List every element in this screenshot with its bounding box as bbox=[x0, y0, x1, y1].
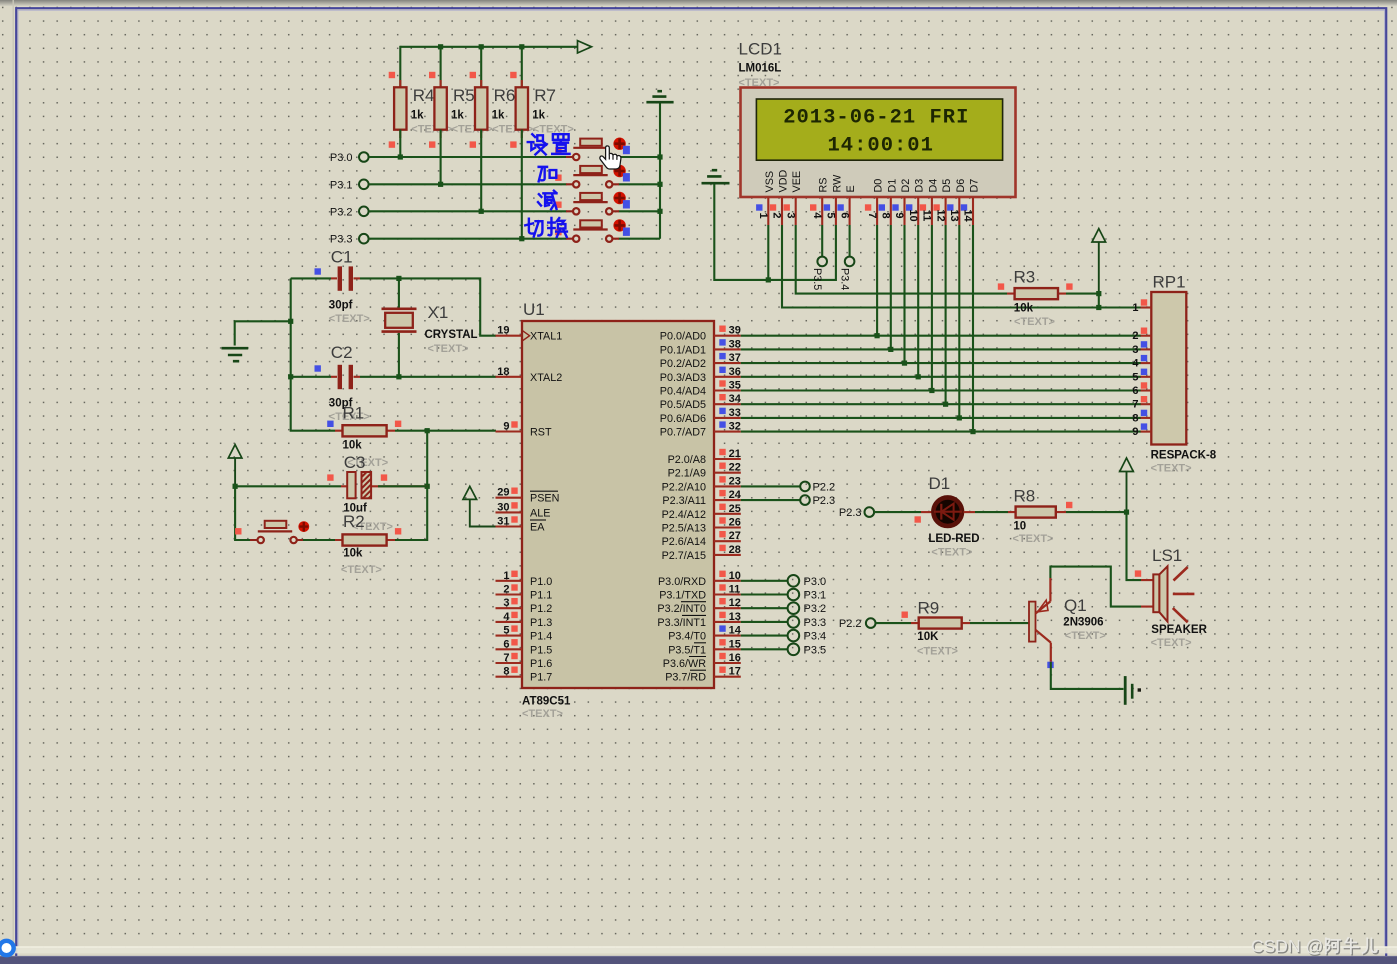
svg-text:Q1: Q1 bbox=[1064, 596, 1087, 615]
junction power/LED bbox=[1124, 510, 1129, 515]
wire P0.4 to RP1 bbox=[741, 389, 1141, 391]
svg-text:R5: R5 bbox=[453, 86, 475, 105]
svg-text:10k: 10k bbox=[1014, 303, 1034, 315]
wire R4 to P3.0 row bbox=[399, 130, 401, 158]
wire VSS bbox=[767, 225, 769, 280]
svg-text:<TEXT>: <TEXT> bbox=[1013, 533, 1054, 545]
LCD pin 1 VSS bbox=[756, 171, 776, 225]
terminal P3.2 (U1 right) bbox=[741, 602, 826, 615]
junction bbox=[888, 347, 893, 352]
svg-text:CSDN @: CSDN @ bbox=[1251, 936, 1323, 956]
speaker LS1 bbox=[1135, 546, 1208, 649]
U1 pin 15 P3.5/T1 bbox=[668, 638, 741, 656]
junction rail row1 bbox=[657, 154, 662, 159]
LCD pin 10 D3 bbox=[906, 179, 926, 225]
svg-text:10K: 10K bbox=[917, 631, 939, 643]
junction R3 top bbox=[1096, 291, 1101, 296]
svg-text:31: 31 bbox=[497, 516, 509, 528]
resistor R5 1k bbox=[429, 72, 493, 148]
svg-text:17: 17 bbox=[729, 666, 741, 678]
svg-text:P0.4/AD4: P0.4/AD4 bbox=[660, 386, 706, 398]
wire P3.0 row bbox=[369, 156, 660, 158]
svg-text:RP1: RP1 bbox=[1153, 273, 1186, 292]
U1 pin 33 P0.6/AD6 bbox=[660, 407, 741, 425]
svg-text:6: 6 bbox=[1132, 385, 1138, 397]
junction bbox=[929, 388, 934, 393]
svg-text:28: 28 bbox=[729, 544, 741, 556]
svg-text:38: 38 bbox=[729, 338, 741, 350]
svg-text:36: 36 bbox=[729, 366, 741, 378]
terminal P3.3 (U1 right) bbox=[741, 616, 826, 629]
junction RST tee bbox=[425, 428, 430, 433]
svg-text:7: 7 bbox=[1132, 399, 1138, 411]
svg-text:R7: R7 bbox=[534, 86, 556, 105]
LCD pin 7 D0 bbox=[865, 179, 885, 225]
U1 pin 24 P2.3/A11 bbox=[662, 489, 741, 507]
terminal P3.3 bbox=[330, 234, 369, 246]
wire P0.1 to RP1 bbox=[741, 348, 1141, 350]
svg-text:PSEN: PSEN bbox=[530, 493, 559, 505]
ground (buttons) bbox=[646, 91, 673, 102]
junction bbox=[479, 209, 484, 214]
power arrow (C3) bbox=[228, 445, 242, 487]
push button (reset) bbox=[235, 521, 309, 543]
svg-text:P3.4/T0: P3.4/T0 bbox=[668, 631, 706, 643]
svg-text:P2.4/A12: P2.4/A12 bbox=[662, 509, 706, 521]
wire D6 to P0.6 bbox=[958, 225, 960, 418]
svg-text:P1.3: P1.3 bbox=[530, 617, 552, 629]
junction C1/X1 bbox=[396, 276, 401, 281]
LCD pin 8 D1 bbox=[879, 179, 899, 225]
svg-text:24: 24 bbox=[729, 489, 742, 501]
U1 pin 14 P3.4/T0 bbox=[668, 625, 742, 643]
wire power to speaker bbox=[1127, 512, 1142, 580]
svg-text:R6: R6 bbox=[494, 86, 516, 105]
svg-text:13: 13 bbox=[948, 209, 960, 221]
wire D1 to P0.1 bbox=[890, 225, 892, 349]
svg-text:7: 7 bbox=[503, 652, 509, 664]
svg-text:D5: D5 bbox=[941, 179, 953, 193]
svg-text:<TEXT>: <TEXT> bbox=[1014, 316, 1055, 328]
svg-text:26: 26 bbox=[729, 517, 741, 529]
RP1 pin 8 bbox=[1132, 410, 1151, 425]
junction C3 left bbox=[233, 484, 238, 489]
svg-text:P3.2: P3.2 bbox=[330, 206, 353, 218]
svg-text:8: 8 bbox=[1132, 412, 1138, 424]
svg-text:R1: R1 bbox=[343, 404, 365, 423]
U1 pin 27 P2.6/A14 bbox=[662, 530, 741, 548]
svg-text:2: 2 bbox=[503, 584, 509, 596]
U1 pin 19 XTAL1 bbox=[496, 325, 563, 343]
wire rail to R5 bbox=[440, 46, 442, 88]
svg-text:5: 5 bbox=[503, 625, 509, 637]
resistor R1 10k bbox=[327, 404, 401, 470]
U1 pin 13 P3.3/INT1 bbox=[657, 611, 740, 629]
power arrow (R3) bbox=[1092, 229, 1106, 294]
LED D1 LED-RED bbox=[915, 474, 980, 559]
svg-text:VSS: VSS bbox=[764, 171, 776, 193]
wire P3.2 row bbox=[369, 210, 660, 212]
ground (Q1) bbox=[1125, 676, 1141, 705]
svg-text:RST: RST bbox=[530, 427, 552, 439]
RP1 pin 3 bbox=[1132, 341, 1151, 356]
svg-text:ALE: ALE bbox=[530, 507, 550, 519]
LCD LM016L body bbox=[741, 88, 1016, 198]
svg-text:1: 1 bbox=[1132, 302, 1138, 314]
selection handle circle bbox=[0, 941, 14, 955]
LCD pin 11 D4 bbox=[920, 179, 940, 225]
U1 pin 18 XTAL2 bbox=[496, 366, 563, 384]
U1 pin 22 P2.1/A9 bbox=[668, 462, 741, 480]
svg-text:1k: 1k bbox=[532, 110, 545, 122]
terminal P3.5 (RS) bbox=[811, 225, 827, 290]
svg-text:P0.0/AD0: P0.0/AD0 bbox=[660, 331, 706, 343]
transistor Q1 2N3906 bbox=[1029, 578, 1106, 668]
svg-text:P3.5/T1: P3.5/T1 bbox=[668, 644, 706, 656]
wire R7 to P3.3 row bbox=[521, 130, 523, 239]
LCD pin 13 D6 bbox=[947, 179, 967, 225]
svg-text:P0.7/AD7: P0.7/AD7 bbox=[660, 427, 706, 439]
U1 pin 17 P3.7/RD bbox=[665, 666, 741, 684]
button label 设置 bbox=[528, 134, 570, 154]
svg-text:16: 16 bbox=[729, 652, 741, 664]
svg-text:XTAL1: XTAL1 bbox=[530, 331, 562, 343]
junction bbox=[916, 374, 921, 379]
svg-text:P3.2: P3.2 bbox=[804, 603, 827, 615]
wire rail to R4 bbox=[399, 46, 401, 88]
wire VEE to R3 bbox=[796, 225, 1007, 294]
bottom status bar bbox=[0, 956, 1397, 964]
svg-text:12: 12 bbox=[729, 597, 741, 609]
LCD pin 14 D7 bbox=[961, 179, 981, 225]
resistor R4 1k bbox=[389, 72, 453, 148]
U1 pin 7 P1.6 bbox=[496, 652, 553, 670]
svg-text:<TEXT>: <TEXT> bbox=[522, 708, 563, 720]
svg-text:R4: R4 bbox=[413, 86, 435, 105]
svg-text:D1: D1 bbox=[886, 179, 898, 193]
junction rail row3 bbox=[657, 209, 662, 214]
junction on top rail bbox=[479, 44, 484, 49]
svg-text:6: 6 bbox=[503, 638, 509, 650]
svg-text:P1.6: P1.6 bbox=[530, 658, 552, 670]
svg-text:R2: R2 bbox=[343, 512, 365, 531]
capacitor C1 30pf bbox=[291, 248, 370, 326]
wire D7 to P0.7 bbox=[972, 225, 974, 432]
svg-text:<TEXT>: <TEXT> bbox=[931, 547, 972, 559]
junction ground tee bbox=[288, 319, 293, 324]
svg-text:R9: R9 bbox=[918, 599, 940, 618]
svg-text:21: 21 bbox=[729, 448, 741, 460]
wire P0.3 to RP1 bbox=[741, 376, 1141, 378]
crystal X1 bbox=[382, 278, 478, 376]
wire C1 to XTAL1 bbox=[360, 278, 496, 335]
svg-text:P3.1: P3.1 bbox=[330, 179, 353, 191]
svg-text:RESPACK-8: RESPACK-8 bbox=[1151, 450, 1217, 462]
U1 pin 12 P3.2/INT0 bbox=[657, 597, 740, 615]
svg-text:8: 8 bbox=[503, 666, 509, 678]
svg-text:12: 12 bbox=[934, 209, 946, 221]
svg-text:1k: 1k bbox=[411, 110, 424, 122]
U1 pin 38 P0.1/AD1 bbox=[660, 338, 741, 356]
svg-text:LCD1: LCD1 bbox=[739, 40, 782, 59]
svg-text:R8: R8 bbox=[1014, 487, 1036, 506]
ground (left) bbox=[222, 348, 249, 361]
U1 pin 35 P0.4/AD4 bbox=[660, 380, 741, 398]
svg-text:1: 1 bbox=[757, 212, 769, 218]
wire P2.3 to LED bbox=[874, 511, 932, 513]
ground (LCD) bbox=[702, 170, 769, 280]
U1 pin 3 P1.2 bbox=[496, 597, 553, 615]
svg-text:LM016L: LM016L bbox=[739, 63, 782, 75]
wire VDD to RP1 pin1 bbox=[782, 225, 1141, 308]
svg-text:5: 5 bbox=[1132, 371, 1138, 383]
svg-text:AT89C51: AT89C51 bbox=[522, 696, 571, 708]
svg-text:<TEXT>: <TEXT> bbox=[1065, 630, 1106, 642]
wire P0.0 to RP1 bbox=[741, 335, 1141, 337]
wire P0.5 to RP1 bbox=[741, 403, 1141, 405]
U1 pin 8 P1.7 bbox=[496, 666, 553, 684]
RP1 RESPACK-8 body bbox=[1151, 273, 1217, 475]
svg-text:34: 34 bbox=[729, 393, 742, 405]
svg-text:<TEXT>: <TEXT> bbox=[917, 646, 958, 658]
wire R1 to RST bbox=[395, 430, 496, 432]
svg-text:E: E bbox=[845, 185, 857, 192]
RP1 pin 1 bbox=[1132, 299, 1151, 314]
svg-text:1k: 1k bbox=[451, 110, 464, 122]
svg-text:P1.2: P1.2 bbox=[530, 603, 552, 615]
svg-text:<TEXT>: <TEXT> bbox=[329, 313, 370, 325]
svg-text:8: 8 bbox=[880, 212, 892, 218]
junction C3 right bbox=[425, 484, 430, 489]
svg-text:P2.3: P2.3 bbox=[839, 507, 862, 519]
svg-text:P2.3: P2.3 bbox=[813, 495, 836, 507]
svg-text:P1.4: P1.4 bbox=[530, 631, 552, 643]
push button row 1 bbox=[555, 138, 630, 161]
svg-text:P2.2/A10: P2.2/A10 bbox=[662, 481, 706, 493]
svg-text:P3.3: P3.3 bbox=[804, 617, 827, 629]
svg-text:25: 25 bbox=[729, 503, 741, 515]
U1 pin 23 P2.2/A10 bbox=[662, 475, 741, 493]
wire RST vertical bbox=[395, 431, 427, 540]
svg-text:13: 13 bbox=[729, 611, 741, 623]
svg-text:C3: C3 bbox=[344, 453, 366, 472]
junction on top rail bbox=[438, 44, 443, 49]
RP1 pin 2 bbox=[1132, 328, 1151, 343]
resistor R3 10k bbox=[998, 268, 1073, 329]
U1 pin 29 PSEN bbox=[496, 487, 560, 505]
svg-text:P3.4: P3.4 bbox=[839, 268, 851, 290]
svg-text:P2.3/A11: P2.3/A11 bbox=[662, 495, 706, 507]
svg-text:39: 39 bbox=[729, 325, 741, 337]
junction rail row2 bbox=[657, 182, 662, 187]
svg-text:VDD: VDD bbox=[778, 170, 790, 193]
U1 pin 4 P1.3 bbox=[496, 611, 553, 629]
svg-text:C2: C2 bbox=[331, 343, 353, 362]
wire P0.2 to RP1 bbox=[741, 362, 1141, 364]
svg-text:D1: D1 bbox=[929, 474, 951, 493]
svg-text:35: 35 bbox=[729, 380, 741, 392]
wire D0 to P0.0 bbox=[876, 225, 878, 336]
LCD pin 12 D5 bbox=[933, 179, 953, 225]
resistor R7 1k bbox=[510, 72, 574, 148]
svg-text:3: 3 bbox=[503, 597, 509, 609]
svg-text:P1.7: P1.7 bbox=[530, 672, 552, 684]
svg-text:P3.3: P3.3 bbox=[330, 234, 353, 246]
U1 pin 5 P1.4 bbox=[496, 625, 553, 643]
svg-text:4: 4 bbox=[811, 212, 823, 219]
svg-text:18: 18 bbox=[497, 366, 509, 378]
junction R3 bottom bbox=[1096, 305, 1101, 310]
svg-text:37: 37 bbox=[729, 352, 741, 364]
svg-text:P3.2/INT0: P3.2/INT0 bbox=[657, 603, 706, 615]
junction on top rail bbox=[519, 44, 524, 49]
svg-text:R3: R3 bbox=[1014, 268, 1036, 287]
svg-text:LS1: LS1 bbox=[1152, 546, 1182, 565]
junction bbox=[875, 333, 880, 338]
wire Q1 collector to ground bbox=[1051, 662, 1124, 689]
terminal P3.0 (U1 right) bbox=[741, 575, 826, 588]
capacitor C3 10uf bbox=[235, 453, 427, 533]
svg-text:29: 29 bbox=[497, 487, 509, 499]
svg-text:P1.0: P1.0 bbox=[530, 576, 552, 588]
wire button right rail bbox=[659, 103, 661, 239]
wire R9 to Q1 base bbox=[970, 622, 1029, 624]
wire VCC to C3/R2 bbox=[235, 486, 250, 540]
wire LED to R8 bbox=[964, 511, 1008, 513]
svg-text:P2.2: P2.2 bbox=[839, 618, 862, 630]
push button row 4 bbox=[555, 219, 630, 242]
terminal P2.3 (U1) bbox=[741, 495, 835, 507]
svg-text:U1: U1 bbox=[523, 300, 545, 319]
junction bbox=[943, 402, 948, 407]
terminal P3.1 bbox=[330, 179, 369, 191]
svg-text:XTAL2: XTAL2 bbox=[530, 372, 562, 384]
U1 pin 21 P2.0/A8 bbox=[668, 448, 741, 466]
svg-text:14:00:01: 14:00:01 bbox=[828, 135, 934, 158]
wire P3.3 row bbox=[369, 238, 660, 240]
svg-text:27: 27 bbox=[729, 530, 741, 542]
U1 pin 30 ALE bbox=[496, 501, 551, 519]
svg-text:10: 10 bbox=[907, 209, 919, 221]
svg-text:23: 23 bbox=[729, 475, 741, 487]
junction bbox=[957, 415, 962, 420]
svg-text:33: 33 bbox=[729, 407, 741, 419]
svg-text:P3.1/TXD: P3.1/TXD bbox=[659, 590, 706, 602]
U1 pin 6 P1.5 bbox=[496, 638, 553, 656]
wire top VCC rail bbox=[400, 46, 577, 48]
LCD pin 4 RS bbox=[810, 178, 830, 226]
svg-text:P0.5/AD5: P0.5/AD5 bbox=[660, 399, 706, 411]
svg-text:3: 3 bbox=[1132, 344, 1138, 356]
svg-text:10: 10 bbox=[729, 570, 741, 582]
U1 pin 2 P1.1 bbox=[496, 584, 553, 602]
svg-text:RS: RS bbox=[818, 178, 830, 193]
svg-text:6: 6 bbox=[838, 212, 850, 218]
RP1 pin 5 bbox=[1132, 369, 1151, 384]
wire C2 to XTAL2 bbox=[360, 376, 496, 378]
wire R3 to junction bbox=[1066, 294, 1099, 308]
terminal P3.1 (U1 right) bbox=[741, 589, 826, 602]
svg-text:D6: D6 bbox=[955, 179, 967, 193]
U1 pin 36 P0.3/AD3 bbox=[660, 366, 741, 384]
U1 pin 26 P2.5/A13 bbox=[662, 517, 741, 535]
svg-text:1k: 1k bbox=[492, 110, 505, 122]
LCD pin 9 D2 bbox=[892, 179, 912, 225]
U1 pin 1 P1.0 bbox=[496, 570, 553, 588]
LCD1 title bbox=[739, 40, 782, 90]
wire button to R2 bbox=[303, 539, 335, 541]
U1 pin 9 RST bbox=[496, 421, 552, 439]
svg-text:19: 19 bbox=[497, 325, 509, 337]
wire P0.6 to RP1 bbox=[741, 417, 1141, 419]
svg-text:10k: 10k bbox=[343, 440, 363, 452]
junction bbox=[438, 182, 443, 187]
svg-text:P2.2: P2.2 bbox=[813, 481, 836, 493]
svg-text:D0: D0 bbox=[873, 179, 885, 193]
terminal P2.2 (R9) bbox=[839, 618, 876, 630]
op-amp U1 AT89C51 body bbox=[522, 300, 714, 720]
svg-text:VEE: VEE bbox=[791, 171, 803, 193]
push button row 3 bbox=[555, 192, 630, 215]
svg-text:P3.4: P3.4 bbox=[804, 631, 827, 643]
svg-text:P2.1/A9: P2.1/A9 bbox=[668, 468, 706, 480]
svg-text:D2: D2 bbox=[900, 179, 912, 193]
terminal P3.0 bbox=[330, 152, 369, 164]
svg-text:P3.3/INT1: P3.3/INT1 bbox=[657, 617, 706, 629]
svg-text:P0.6/AD6: P0.6/AD6 bbox=[660, 413, 706, 425]
wire rail to R6 bbox=[480, 46, 482, 88]
junction bbox=[902, 361, 907, 366]
LCD pin 3 VEE bbox=[784, 171, 804, 225]
LCD pin 2 VDD bbox=[770, 170, 790, 225]
svg-text:30pf: 30pf bbox=[329, 300, 353, 312]
svg-text:CRYSTAL: CRYSTAL bbox=[425, 329, 478, 341]
svg-text:<TEXT>: <TEXT> bbox=[341, 564, 382, 576]
U1 pin 34 P0.5/AD5 bbox=[660, 393, 742, 411]
terminal P2.3 (D1) bbox=[839, 507, 874, 519]
LCD pin 6 E bbox=[837, 185, 857, 225]
svg-text:<TEXT>: <TEXT> bbox=[428, 343, 469, 355]
svg-text:9: 9 bbox=[893, 212, 905, 218]
wire D3 to P0.3 bbox=[917, 225, 919, 377]
junction bbox=[398, 154, 403, 159]
wire P0.7 to RP1 bbox=[741, 431, 1141, 433]
svg-text:P0.1/AD1: P0.1/AD1 bbox=[660, 344, 706, 356]
power arrow (LED) bbox=[1120, 458, 1134, 512]
push button row 2 bbox=[555, 165, 630, 188]
wire D5 to P0.5 bbox=[945, 225, 947, 404]
svg-text:<TEXT>: <TEXT> bbox=[1151, 637, 1192, 649]
terminal P3.5 (U1 right) bbox=[741, 644, 826, 657]
bottom scrollbar band bbox=[0, 947, 1397, 953]
wire P3.1 row bbox=[369, 183, 660, 185]
RP1 pin 6 bbox=[1132, 382, 1151, 397]
junction C2 tee bbox=[288, 374, 293, 379]
U1 pin 11 P3.1/TXD bbox=[659, 584, 741, 602]
svg-text:P0.2/AD2: P0.2/AD2 bbox=[660, 358, 706, 370]
wire P2.2 to R9 bbox=[876, 622, 911, 624]
svg-text:P3.0/RXD: P3.0/RXD bbox=[658, 576, 706, 588]
svg-text:22: 22 bbox=[729, 462, 741, 474]
svg-text:15: 15 bbox=[729, 638, 741, 650]
svg-text:RW: RW bbox=[831, 174, 843, 193]
svg-text:32: 32 bbox=[729, 421, 741, 433]
RP1 pin 9 bbox=[1132, 423, 1151, 438]
U1 pin 28 P2.7/A15 bbox=[662, 544, 741, 562]
svg-text:10: 10 bbox=[1013, 521, 1026, 533]
svg-text:2013-06-21 FRI: 2013-06-21 FRI bbox=[783, 107, 969, 130]
RP1 pin 7 bbox=[1132, 396, 1151, 411]
